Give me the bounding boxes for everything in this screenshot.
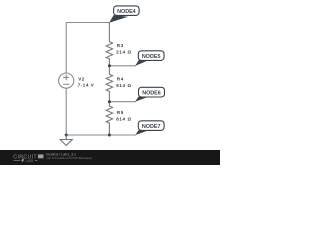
svg-text:NODE6: NODE6 xyxy=(142,90,161,96)
node NODE6 xyxy=(139,87,165,97)
svg-text:NODE4: NODE4 xyxy=(117,9,136,15)
svg-text:NODE7: NODE7 xyxy=(142,124,161,130)
wire stub to NODE6 xyxy=(109,101,135,103)
svg-text:nttp://circuitlab.com/c/6t9784: nttp://circuitlab.com/c/6t9784xhaqxky xyxy=(46,156,92,160)
svg-text:514 Ω: 514 Ω xyxy=(116,83,131,88)
resistor R3 xyxy=(106,23,112,66)
voltage source V2 xyxy=(59,73,74,88)
node NODE7 pointer xyxy=(135,130,147,135)
node NODE5 xyxy=(138,51,164,61)
svg-text:814 Ω: 814 Ω xyxy=(116,117,131,122)
resistor R4 xyxy=(106,66,112,102)
resistor R5 xyxy=(106,102,112,135)
junction dot ground corner xyxy=(65,134,68,137)
svg-text:7.14 V: 7.14 V xyxy=(78,83,95,88)
footer bar xyxy=(0,150,220,165)
wire bottom horizontal xyxy=(66,134,136,136)
wire top horizontal xyxy=(66,22,109,24)
wire left vertical upper xyxy=(65,23,67,73)
svg-text:NODE5: NODE5 xyxy=(142,54,161,60)
wire stub to NODE5 xyxy=(109,65,136,67)
node NODE4 xyxy=(114,6,140,16)
node NODE6 pointer xyxy=(135,96,147,101)
svg-text:LAB: LAB xyxy=(26,159,34,163)
wire left vertical lower xyxy=(65,88,67,135)
svg-text:214 Ω: 214 Ω xyxy=(116,50,131,55)
node NODE4 pointer xyxy=(109,15,128,23)
junction dot R4-R5 xyxy=(108,100,111,103)
junction dot R5-bottom xyxy=(108,134,111,137)
node NODE7 xyxy=(138,121,164,131)
svg-text:R4: R4 xyxy=(117,76,124,81)
node NODE5 pointer xyxy=(135,60,147,66)
ground xyxy=(65,135,67,140)
svg-text:R5: R5 xyxy=(117,110,124,115)
junction dot R3-R4 xyxy=(108,64,111,67)
svg-text:V2: V2 xyxy=(78,76,85,81)
svg-text:R3: R3 xyxy=(117,43,124,48)
